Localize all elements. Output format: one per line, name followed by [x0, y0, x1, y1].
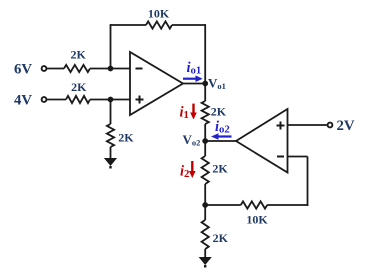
svg-text:2K: 2K: [71, 48, 87, 62]
svg-text:4V: 4V: [14, 92, 32, 108]
svg-text:2K: 2K: [118, 131, 134, 145]
svg-text:10K: 10K: [148, 7, 170, 21]
svg-text:2V: 2V: [336, 118, 354, 134]
svg-text:2K: 2K: [211, 105, 227, 119]
svg-text:2K: 2K: [213, 231, 229, 245]
svg-text:6V: 6V: [14, 61, 32, 77]
svg-text:2K: 2K: [212, 161, 228, 175]
svg-text:2K: 2K: [71, 80, 87, 94]
svg-text:10K: 10K: [246, 213, 268, 227]
